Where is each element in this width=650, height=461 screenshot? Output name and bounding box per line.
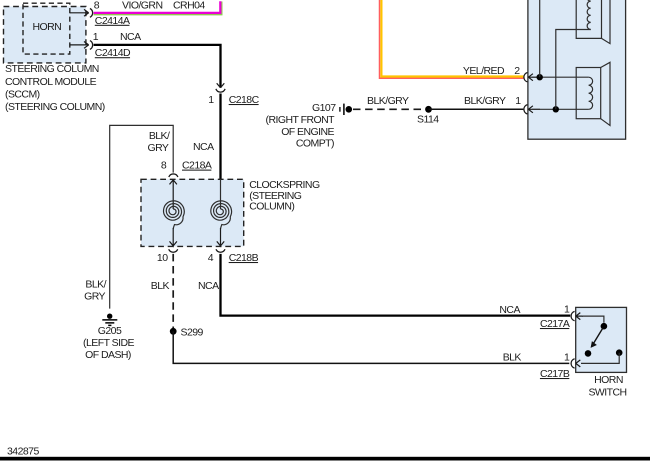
top horn coil	[587, 0, 591, 30]
svg-text:(SCCM): (SCCM)	[5, 89, 40, 101]
svg-text:(LEFT SIDE: (LEFT SIDE	[83, 337, 134, 349]
svg-text:342875: 342875	[7, 445, 39, 457]
svg-text:YEL/RED: YEL/RED	[463, 65, 505, 77]
svg-text:C2414A: C2414A	[95, 15, 130, 27]
top horn body	[576, 0, 601, 38]
bottom horn body	[576, 68, 601, 119]
connector C217A arrow	[576, 313, 583, 320]
wire BLK dashed to S299	[172, 254, 174, 330]
svg-text:1: 1	[515, 95, 521, 107]
splice S114	[425, 106, 432, 113]
horn pin 1 arrow	[528, 106, 540, 113]
right spiral	[211, 201, 232, 229]
wire VIO/GRN CRH04 (magenta)	[94, 2, 222, 15]
svg-text:OF DASH): OF DASH)	[85, 349, 131, 361]
splice S299	[170, 328, 177, 335]
connector C217B arrow	[576, 360, 581, 367]
svg-text:1: 1	[208, 94, 214, 106]
switch contact dot bottom left	[585, 350, 592, 357]
top horn flare	[602, 0, 611, 44]
switch contact dot bottom right	[616, 349, 623, 356]
svg-text:CRH04: CRH04	[173, 0, 205, 12]
svg-text:BLK/: BLK/	[85, 278, 106, 290]
svg-text:COLUMN): COLUMN)	[249, 200, 294, 212]
svg-text:NCA: NCA	[120, 31, 141, 43]
svg-text:CONTROL MODULE: CONTROL MODULE	[5, 76, 97, 88]
horn pin 2 arrow	[528, 74, 540, 81]
svg-text:C2414D: C2414D	[95, 47, 131, 59]
wire BLK/GRY from C218A up-left to G205	[110, 125, 174, 308]
switch contact dot top	[601, 323, 608, 330]
SCCM pin 1 wire stub and arrow	[70, 42, 89, 49]
HORN inner dashed box of SCCM	[23, 3, 70, 54]
connector C218B left cup	[169, 249, 178, 252]
svg-text:G107: G107	[312, 102, 336, 114]
junction dot pin1 branch	[553, 106, 559, 112]
svg-text:NCA: NCA	[193, 141, 214, 153]
svg-text:1: 1	[564, 352, 570, 364]
svg-text:C218B: C218B	[229, 252, 259, 264]
connector C2414D cup	[90, 41, 93, 50]
horn internal wire pin2 to coil	[532, 76, 589, 78]
svg-text:BLK: BLK	[151, 280, 170, 292]
horn assembly box	[528, 0, 626, 139]
svg-text:(STEERING COLUMN): (STEERING COLUMN)	[5, 101, 105, 113]
clockspring dashed box	[141, 179, 244, 246]
switch internal top wire	[582, 316, 604, 323]
left spiral	[164, 201, 185, 229]
svg-text:G205: G205	[98, 325, 122, 337]
svg-text:HORN: HORN	[33, 21, 62, 33]
SCCM module outer dashed box	[4, 7, 86, 63]
svg-text:NCA: NCA	[198, 280, 219, 292]
connector C217B cup	[571, 359, 575, 368]
svg-text:S299: S299	[181, 327, 204, 339]
svg-text:1: 1	[93, 31, 99, 43]
ground G107 eyelet symbol	[340, 104, 352, 115]
connector C217A cup	[571, 311, 575, 320]
right spiral exit wire and bottom arrow	[217, 228, 224, 246]
svg-text:BLK/: BLK/	[149, 130, 170, 142]
horn pin 2 cup	[524, 73, 528, 82]
bottom horn coil	[589, 77, 593, 109]
svg-text:BLK/GRY: BLK/GRY	[464, 95, 506, 107]
wire NCA thick to clockspring	[219, 94, 221, 180]
svg-text:10: 10	[157, 252, 168, 264]
svg-text:BLK: BLK	[503, 351, 522, 363]
connector C218C cup	[216, 89, 225, 92]
svg-text:GRY: GRY	[147, 142, 168, 154]
svg-text:BLK/GRY: BLK/GRY	[367, 95, 409, 107]
right wire into box (thin)	[220, 179, 222, 209]
left spiral exit wire and bottom arrow	[170, 228, 177, 246]
horn pin 1 cup	[524, 105, 528, 114]
svg-text:8: 8	[161, 160, 167, 172]
svg-text:OF ENGINE: OF ENGINE	[281, 126, 334, 138]
switch blade with arrow	[594, 328, 603, 343]
svg-text:8: 8	[94, 0, 100, 12]
wire NCA thick upper run	[94, 45, 221, 88]
svg-text:COMPT): COMPT)	[296, 138, 334, 150]
wire YEL/RED	[380, 0, 524, 78]
svg-text:C218C: C218C	[229, 94, 260, 106]
connector C218C arrow	[217, 83, 225, 88]
junction dot pin2 branch	[537, 74, 543, 80]
svg-text:4: 4	[208, 252, 214, 264]
wire BLK/GRY dashed G107 to S114	[353, 108, 426, 110]
horn switch box	[576, 307, 627, 372]
connector C218B right cup	[216, 249, 225, 252]
svg-text:S114: S114	[417, 114, 439, 126]
bottom horn flare	[601, 62, 610, 125]
svg-text:GRY: GRY	[84, 290, 105, 302]
switch internal bottom wire	[581, 353, 619, 364]
svg-text:HORN: HORN	[594, 374, 623, 386]
svg-text:NCA: NCA	[499, 304, 520, 316]
svg-text:VIO/GRN: VIO/GRN	[122, 0, 163, 12]
connector C2414A cup	[90, 9, 93, 18]
wire BLK/GRY solid S114 to horn	[429, 108, 524, 110]
bottom border bar	[0, 457, 650, 461]
svg-text:SWITCH: SWITCH	[588, 387, 626, 399]
clockspring left pin arrow up	[170, 180, 177, 209]
horn internal wire pin1 to coil	[532, 108, 589, 110]
svg-text:C218A: C218A	[182, 160, 212, 172]
connector C218A cup	[169, 174, 178, 177]
wire BLK solid S299 to horn switch	[173, 331, 569, 363]
svg-text:STEERING COLUMN: STEERING COLUMN	[5, 63, 99, 75]
SCCM pin 8 wire stub and arrow	[70, 9, 89, 16]
wire to top horn coil from pin1 dot	[556, 30, 591, 110]
svg-text:C217A: C217A	[540, 318, 570, 330]
svg-text:2: 2	[514, 65, 520, 77]
svg-text:1: 1	[564, 304, 570, 316]
ground G205	[102, 314, 117, 326]
svg-text:(RIGHT FRONT: (RIGHT FRONT	[266, 114, 336, 126]
wire to top horn from pin2 dot	[539, 0, 541, 77]
wire NCA thick C218B to horn switch	[221, 254, 571, 316]
svg-text:C217B: C217B	[540, 368, 570, 380]
